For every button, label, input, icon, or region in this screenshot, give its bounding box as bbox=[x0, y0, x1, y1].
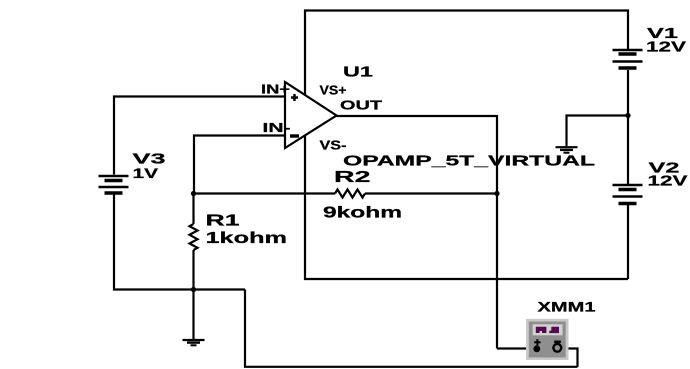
display glyph left bbox=[536, 327, 547, 333]
wire OUT to meter column bbox=[337, 116, 498, 349]
svg-text:IN-: IN- bbox=[263, 120, 291, 135]
svg-text:OPAMP_5T_VIRTUAL: OPAMP_5T_VIRTUAL bbox=[343, 154, 595, 170]
V3 1V battery bbox=[99, 176, 129, 193]
svg-text:12V: 12V bbox=[646, 40, 686, 56]
svg-text:12V: 12V bbox=[648, 173, 688, 189]
multimeter XMM1 bbox=[526, 319, 569, 360]
svg-text:VS+: VS+ bbox=[320, 84, 347, 98]
svg-text:U1: U1 bbox=[343, 64, 373, 81]
wire stub to ground under R1 bbox=[192, 290, 194, 340]
terminal plus bbox=[534, 339, 540, 345]
svg-text:1kohm: 1kohm bbox=[206, 230, 288, 247]
ground right bbox=[556, 147, 578, 153]
wire meter + lead bbox=[497, 347, 537, 349]
svg-text:IN+: IN+ bbox=[261, 82, 291, 97]
wire V3 minus to bottom-left rail bbox=[114, 195, 245, 290]
svg-text:OUT: OUT bbox=[340, 99, 383, 113]
display glyph right bbox=[549, 327, 559, 333]
resistor R1 1kohm vertical bbox=[192, 194, 194, 225]
wire bottom return rail bbox=[245, 290, 578, 367]
wire IN+ to V3 bbox=[114, 97, 285, 175]
terminal minus bbox=[554, 340, 561, 343]
op-amp minus mark bbox=[290, 134, 299, 137]
resistor R2 9kohm bbox=[335, 190, 365, 198]
wire V1 minus to V2 plus bbox=[627, 70, 629, 184]
wire VS- rail bottom bbox=[305, 136, 628, 279]
wire feedback run with R2 bbox=[194, 192, 336, 194]
node R1 bottom junction bbox=[191, 287, 196, 292]
svg-text:VS-: VS- bbox=[320, 139, 347, 153]
V2 12V battery bbox=[613, 185, 643, 204]
node R1 top junction bbox=[191, 191, 196, 196]
wire V2 minus down to bottom rail bbox=[627, 205, 629, 279]
op-amp plus mark bbox=[291, 94, 298, 101]
wire junction to ground bbox=[567, 116, 629, 147]
svg-text:9kohm: 9kohm bbox=[323, 205, 402, 222]
svg-text:1V: 1V bbox=[133, 165, 159, 181]
V1 12V battery bbox=[613, 50, 643, 68]
wire R2 right to OUT column bbox=[365, 192, 497, 194]
ground bottom bbox=[183, 340, 205, 345]
node R2/OUT junction bbox=[494, 191, 499, 196]
wire IN- down to node bbox=[194, 136, 285, 194]
wire top rail from VS+ to V1 bbox=[305, 11, 628, 96]
op-amp U1 triangle bbox=[285, 82, 337, 148]
node junction V1/V2 midpoint bbox=[625, 113, 630, 118]
svg-text:R2: R2 bbox=[334, 169, 371, 186]
svg-text:XMM1: XMM1 bbox=[538, 298, 596, 314]
wire meter - lead down to bottom wire bbox=[557, 349, 578, 367]
svg-text:R1: R1 bbox=[206, 213, 240, 230]
